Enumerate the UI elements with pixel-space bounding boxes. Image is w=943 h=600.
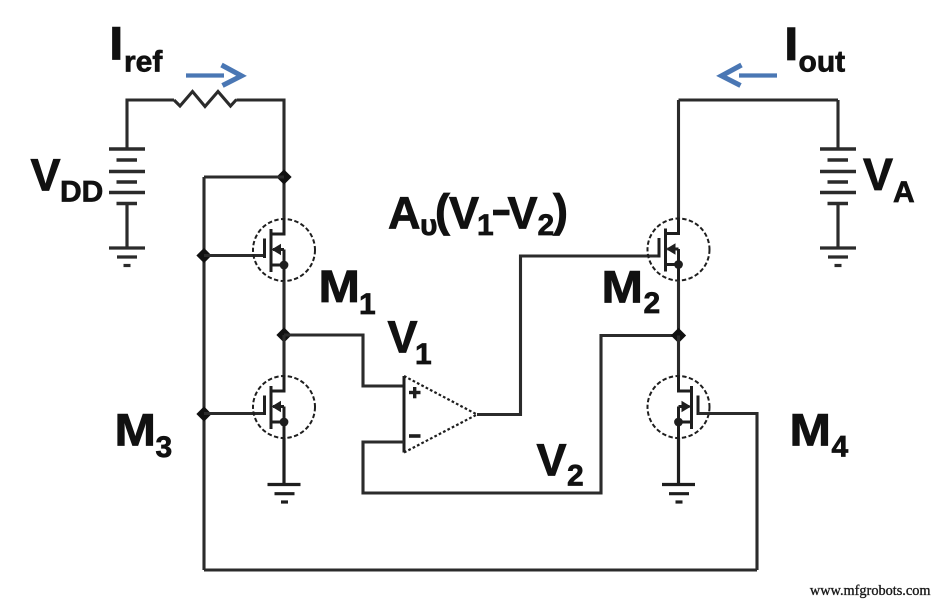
svg-text:www.mfgrobots.com: www.mfgrobots.com: [810, 583, 931, 599]
ground below VDD: [109, 204, 145, 266]
svg-text:(: (: [435, 185, 450, 236]
svg-text:V: V: [537, 435, 567, 486]
transistor M1: [253, 218, 315, 282]
resistor Rref: [174, 92, 237, 107]
wire node V1 to M3 drain: [282, 335, 285, 377]
svg-text:A: A: [388, 188, 421, 239]
svg-text:1: 1: [359, 288, 376, 321]
svg-text:3: 3: [156, 431, 173, 464]
battery VA: [820, 149, 856, 204]
wire M2 drain: [677, 100, 680, 220]
node VDD/M1 drain: [276, 169, 291, 184]
wire M4 gate loop: [698, 414, 757, 571]
svg-text:4: 4: [832, 431, 849, 464]
arrow Iout (blue): [722, 65, 778, 86]
svg-text:I: I: [110, 18, 123, 69]
wire op-amp minus input / V2 feedback: [363, 336, 679, 494]
transistor M3: [253, 375, 315, 439]
svg-text:V: V: [388, 312, 418, 363]
svg-text:M: M: [319, 261, 361, 312]
node M3 gate on left rail: [196, 406, 211, 421]
wire top right horizontal: [679, 98, 839, 101]
transistor M2: [648, 218, 710, 282]
svg-text:V: V: [449, 188, 479, 239]
ground below M3: [268, 438, 301, 502]
svg-text:M: M: [115, 405, 157, 456]
node M2/M4: [671, 328, 686, 343]
svg-text:A: A: [893, 176, 915, 209]
ground below VA: [820, 204, 856, 266]
svg-text:M: M: [790, 405, 832, 456]
op-amp plus sign: [409, 391, 421, 394]
svg-text:out: out: [799, 46, 846, 79]
wire V1 node to op-amp plus input: [284, 335, 404, 386]
svg-text:1: 1: [477, 209, 494, 242]
svg-text:I: I: [785, 19, 798, 70]
wire left rail: [202, 177, 205, 570]
wire op-amp output to M2 gate: [477, 256, 659, 415]
wire bottom: [204, 568, 757, 571]
svg-text:ref: ref: [124, 46, 163, 79]
svg-text:V: V: [508, 188, 538, 239]
op-amp minus sign: [409, 434, 421, 438]
wire VDD node to left rail: [204, 175, 284, 178]
op-amp U1: [404, 376, 477, 453]
wire M3 gate lead: [204, 412, 265, 415]
node V1: [276, 327, 291, 342]
svg-text:V: V: [31, 150, 61, 201]
svg-text:V: V: [863, 149, 893, 200]
transistor M4 (mirrored): [648, 375, 710, 439]
wire M1 source to node V1: [282, 281, 285, 335]
arrow Iref (blue): [186, 65, 242, 86]
battery VDD: [109, 149, 145, 204]
svg-text:1: 1: [415, 338, 432, 371]
wire M1 gate lead: [204, 254, 265, 257]
svg-text:DD: DD: [60, 176, 103, 209]
ground below M4: [662, 438, 695, 502]
wire node to M4 drain: [677, 336, 680, 378]
svg-text:2: 2: [538, 209, 555, 242]
wire VDD top: [127, 100, 174, 149]
node M1 gate on left rail: [196, 248, 211, 263]
wire VA top: [836, 100, 839, 149]
wire resistor to M1 drain: [237, 100, 285, 220]
svg-text:2: 2: [644, 287, 661, 320]
svg-text:2: 2: [567, 460, 584, 493]
wire M2 source to node: [677, 281, 680, 336]
svg-text:M: M: [602, 262, 644, 313]
svg-text:): ): [553, 185, 568, 236]
